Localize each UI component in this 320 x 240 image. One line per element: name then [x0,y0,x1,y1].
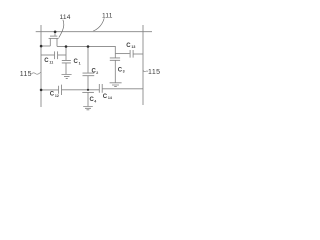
capacitor C13 plates [130,50,133,58]
capacitor C14 plates [99,84,102,93]
svg-text:115: 115 [20,71,32,78]
label C12 [50,92,59,98]
wire C11 left [41,54,54,56]
svg-text:1: 1 [79,61,81,65]
capacitor C4 lower plate [82,91,94,93]
label C11 [44,58,53,64]
wire C4 to ground [87,92,89,106]
svg-text:13: 13 [131,45,135,49]
wire bottom row left [41,89,58,91]
transistor 114 channel bar [49,37,59,39]
label C14 [103,94,112,100]
label C2 [92,69,99,75]
transistor 114 gate bar [50,35,57,37]
transistor 114 left leg [49,38,51,46]
transistor 114 gate stub [54,32,56,36]
wire node to C2 [87,47,89,73]
ground G2 [110,83,122,87]
wire C3 to ground [114,60,116,82]
wire right signal line 115 [142,25,144,105]
wire bottom row middle [62,89,99,91]
wire C2 to bottom row [87,76,89,90]
wire C11 right [58,54,66,56]
wire C13 to right line [133,53,143,55]
label C3 [118,67,125,73]
leader 114 [59,20,64,38]
wire node to C3 [114,54,116,58]
capacitor C12 plates [59,85,62,95]
leader 115 left tilde [32,72,41,74]
wire drain node row [57,46,115,53]
capacitor C2 plates [83,73,95,76]
svg-text:3: 3 [123,70,125,74]
wire gate bus 111 [36,31,152,33]
wire C1 to ground [65,63,67,74]
transistor 114 right leg [56,38,58,46]
capacitor C11 plates [55,51,58,59]
junction bottom row-C2 branch [87,89,89,91]
wire source to left line [41,45,50,47]
ground G3 [83,107,93,110]
label C4 [90,97,97,103]
junction bottom row-left line [40,89,43,92]
ground G1 [62,75,72,79]
capacitor C1 plates [62,60,71,63]
svg-text:11: 11 [49,60,53,64]
junction gate-bus [54,30,57,33]
svg-text:12: 12 [55,94,59,98]
svg-text:115: 115 [148,69,161,76]
junction node-C1 [65,45,68,48]
capacitor C3 plates [110,58,120,60]
wire bottom row right [103,88,144,90]
junction node-C2 [87,45,90,48]
leader 115 right tilde [143,70,148,72]
junction source-left line [40,45,43,48]
leader 111 [93,18,104,31]
svg-text:14: 14 [108,96,112,100]
svg-text:2: 2 [96,71,98,75]
wire node to C13 [115,53,130,55]
label C13 [126,43,135,49]
svg-text:114: 114 [60,14,71,21]
wire node to C1 [65,47,67,61]
svg-text:4: 4 [94,99,96,103]
wire left signal line 115 [40,25,42,107]
svg-text:111: 111 [102,12,113,19]
label C1 [74,59,81,65]
